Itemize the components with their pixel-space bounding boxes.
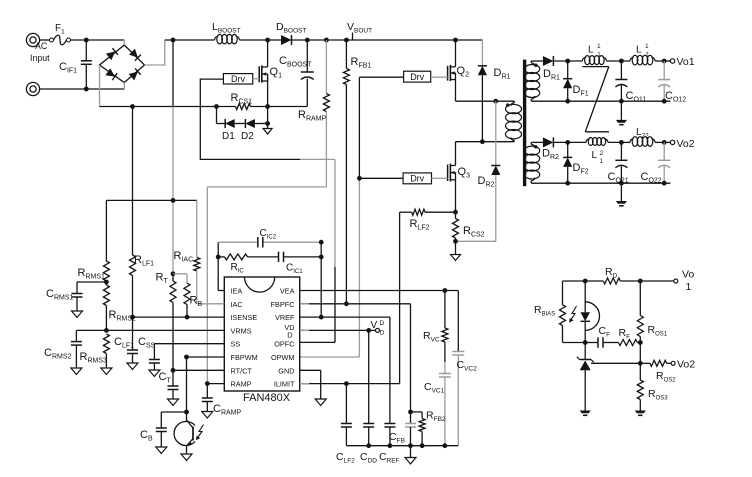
label C_SS [138,336,156,350]
driver Drv3 box [403,173,431,184]
IC pin FBPWM [231,353,258,362]
label D_R2 secondary [542,148,559,162]
label D_F2 [573,162,589,176]
label R_RAMP [298,109,327,123]
junction C_O11 top [619,59,624,64]
svg-text:D: D [380,320,385,327]
IC pin VDD [284,323,294,339]
label L22 [636,127,649,140]
label Vo2 [677,138,695,150]
label D1 [222,131,235,142]
label C_RAMP [213,403,242,417]
wire IAC row [197,303,225,305]
resistor R_LF2 [400,209,456,383]
ground output2 [616,183,627,206]
wire FBPWM row [187,356,225,358]
svg-text:1: 1 [600,158,604,165]
wire VBOUT sense vertical [172,40,174,274]
junction RT/CT node [171,368,176,373]
ground GND pin [315,399,326,406]
svg-text:1: 1 [598,52,601,58]
junction ILIMIT C_LF2 [344,381,349,386]
capacitor C_B [156,412,187,454]
IC pin GND [278,366,294,375]
AC input terminal bottom [26,82,39,95]
label R_RMS1 [78,267,106,281]
svg-text:ISENSE: ISENSE [231,313,258,322]
label C_RMS2 [44,347,72,361]
fuse F1 [50,35,71,45]
junction LED bottom [583,340,588,345]
junction D_R1 bottom [480,139,485,144]
label C_B [140,429,153,443]
transformer core [523,60,526,187]
wire optocoupler emitter [181,446,192,461]
wire compensation to VREF [320,242,322,317]
capacitor C_O12 [658,61,670,101]
label D_R1 [494,67,511,81]
IC pin RAMP [231,380,252,389]
svg-text:OPFC: OPFC [274,340,294,349]
label Vo1 [677,56,695,68]
label Vo2 feedback [677,359,695,371]
AC input terminal top [26,33,39,46]
resistor R_IAC [194,200,200,303]
junction rail [366,443,447,448]
inductor L21 [586,138,608,146]
capacitor C_O22 [658,142,670,183]
resistor R_FB1 [343,40,349,304]
resistor R_D [603,278,620,284]
bridge diode top-right [129,49,141,61]
capacitor C_SS [149,344,160,377]
resistor R_VC [442,291,448,363]
svg-text:Vo2: Vo2 [677,138,695,150]
diode D_F2 [563,142,572,183]
label R_OS1 [648,324,668,338]
svg-text:IAC: IAC [231,300,243,309]
ground under R_CS2 [451,241,461,260]
junction LED top [583,279,588,284]
junction FBPWM node [184,355,189,360]
wire output1 bottom rail [531,100,670,102]
svg-text:L: L [636,45,642,56]
inductor L22 [630,137,655,147]
capacitor C_T [168,370,179,405]
svg-text:2: 2 [600,150,604,157]
svg-text:Drv: Drv [410,174,424,184]
junction R_IC row left [216,255,221,260]
label R_T [156,272,169,286]
svg-text:AC: AC [35,41,48,51]
label R_OS2 [656,370,676,384]
label L12 [636,43,649,58]
transistor Q3 [448,142,456,182]
capacitor C_LF1 [127,317,138,369]
junction FBPFC R_FB1 [344,301,349,306]
label F1 [55,23,65,36]
coupled inductor link [582,67,609,132]
terminal VDD [376,328,380,332]
label L11 [588,43,601,58]
svg-text:VRMS: VRMS [231,326,252,335]
label R_IC [231,262,245,275]
wire bridge AC top stub [123,40,125,45]
label R_FB2 [426,410,446,424]
wire bridge DC plus lead [145,40,165,65]
diode D_R1 secondary [543,56,554,66]
label V_BOUT [347,21,372,35]
IC pin IEA [231,287,243,296]
label C_IF1 [59,61,77,75]
wire gray pin stubs [216,304,310,384]
label Q3 [458,166,471,180]
wire output2 top rail [531,141,670,143]
capacitor C_VC1 [439,362,451,446]
label R_RMS3 [80,351,108,365]
ground R_OS3 [635,411,646,416]
inductor L_BOOST [215,34,240,43]
svg-text:V: V [371,320,378,331]
ground under D2 [263,124,272,135]
junction R_OS1 top [638,279,643,284]
label C_O21 [608,171,629,185]
secondary 1 phase dot [534,63,537,66]
diode D1 [225,119,235,128]
label R_B [190,295,203,309]
label VDD [371,320,385,337]
label C_T [159,371,172,385]
capacitor C_FB [405,412,416,446]
wire GND row [300,370,321,399]
wire Q3 drain rail [456,141,515,143]
capacitor C_RMS2 [71,330,107,374]
transformer primary phase dot [506,103,509,106]
resistor R_BIAS [560,281,586,343]
svg-text:FAN480X: FAN480X [243,392,291,404]
wire FBPFC row [300,304,411,412]
diode D_R1 [478,40,487,142]
svg-text:FBPFC: FBPFC [271,300,295,309]
junction R_VC top [443,288,448,293]
diode D_R2 secondary [543,137,554,147]
shunt regulator TL431 [577,343,594,411]
wire bridge DC minus lead [99,65,101,107]
label C_BOOST [279,55,312,69]
svg-text:VEA: VEA [280,287,295,296]
label R_RMS2 [109,309,137,323]
junction ISENSE node [130,315,135,320]
driver Drv2 box [404,71,431,82]
label R_LF1 [134,254,154,268]
resistor R_OS3 [637,363,643,410]
wire Q3 source [455,180,457,219]
optocoupler phototransistor Q4 [174,420,203,446]
wire sense rail horizontal [106,199,196,201]
label Vo feedback [682,269,694,294]
svg-text:Input: Input [30,53,50,63]
svg-text:D: D [380,330,385,337]
label C_VC1 [424,381,445,395]
wire RT/CT row [173,369,224,371]
inductor L12 [630,55,655,65]
IC pin FBPFC [271,300,295,309]
wire optocoupler collector [186,357,188,422]
terminal Vo2 [670,140,674,144]
resistor R_CS2 [453,219,459,242]
label R_D [605,266,618,280]
wire Drv3 gate stub [432,177,448,179]
diode D_F1 [563,61,572,101]
diode D_R2 [456,101,501,241]
svg-text:OPWM: OPWM [271,353,295,362]
label C_O22 [641,171,662,185]
junction C_IF1 bottom [84,87,89,92]
wire bridge AC bottom stub [123,83,125,90]
svg-text:VREF: VREF [275,313,295,322]
capacitor C_LF2 [341,384,352,446]
terminal Vo2 feedback [671,361,675,365]
IC pin VRMS [231,326,252,335]
wire PFC return bus [100,106,308,108]
junction D_R2 top [493,99,498,104]
label R_FB1 [351,56,372,70]
transformer secondary 1 winding [525,61,540,101]
secondary 2 phase dot [534,145,537,148]
terminal Vo1 feedback [674,279,678,283]
bridge diode bottom-left [105,68,117,80]
svg-text:SS: SS [231,340,241,349]
resistor R_RAMP [323,40,329,187]
junction C_FB node [408,410,413,415]
label D_R1 secondary [543,68,560,82]
label R_IAC [174,250,194,264]
driver Drv1 box [223,74,252,85]
optocoupler LED D4 [569,281,599,343]
wire ILIMIT row [300,383,400,385]
svg-text:1: 1 [686,281,692,293]
label Q2 [457,65,470,79]
label C_O11 [626,90,647,104]
label C_O12 [665,90,686,104]
label C_LF1 [114,336,134,350]
transistor Q1 [259,40,267,83]
transistor Q2 [448,40,456,81]
junction Drv3 tap [357,176,362,181]
junction RAMP node [205,381,210,386]
resistor R_F [618,340,640,346]
label L_BOOST [212,21,241,35]
junction R_OS2 node [638,361,643,366]
IC pin ISENSE [231,313,258,322]
svg-text:Drv: Drv [231,74,245,84]
label AC Input [30,41,50,63]
svg-text:2: 2 [646,52,649,58]
junction C_O22 top [662,140,667,145]
junction R_T R_B top [171,271,176,276]
wire V_BOUT tick [352,33,354,41]
svg-text:Vo: Vo [682,269,694,281]
wire analog ground rail [346,445,458,447]
wire VRMS row [106,329,224,331]
IC pin SS [231,340,241,349]
svg-text:D: D [287,331,292,340]
bridge rectifier diamond [100,45,145,83]
wire feedback top rail [563,280,674,282]
capacitor C_O11 [615,61,627,101]
svg-text:RT/CT: RT/CT [231,366,253,375]
IC U1 FAN480X box [224,277,299,391]
bridge diode top-left [106,48,118,60]
wire VDD row [300,329,376,331]
junction D_F1 top [565,59,570,64]
svg-text:IEA: IEA [231,287,243,296]
junction R_B bottom [185,315,190,320]
wire VREF row [300,317,390,423]
resistor R_OS2 [650,360,667,366]
junction D_F2 top [565,140,570,145]
wire output2 bottom rail [531,182,670,184]
capacitor C_IC1 [279,252,322,263]
junction C_B node [184,410,189,415]
label D_F1 [573,84,589,98]
resistor R_LF1 [130,107,136,318]
capacitor C_IC2 [258,237,263,248]
junction output1 bottom [565,99,666,104]
junction D2 cathode [265,121,270,126]
label R_CS2 [463,225,485,239]
node return bus junctions [130,104,270,109]
capacitor C_RAMP [202,384,213,418]
svg-text:1: 1 [645,43,649,50]
wire Q1 source [267,78,269,106]
svg-text:Drv: Drv [410,72,424,82]
resistor R_CS1 [236,104,251,110]
wire OPFC to Drv1 loop [200,79,335,342]
IC pin RT/CT [231,366,253,375]
wire OPWM to Drv2 Drv3 [300,77,404,357]
label C_IC1 [286,263,303,276]
svg-text:ILIMIT: ILIMIT [274,380,295,389]
label FAN480X [243,392,291,404]
junction C_O12 top [662,59,667,64]
label R_F [619,327,631,341]
wire Drv1 gate stub [253,78,260,80]
wire D1 D2 branch [217,107,268,124]
label R_VC [423,330,440,344]
node VBOUT junctions [171,38,458,43]
label C_FB [389,431,405,445]
wire AC top [40,39,125,41]
label R_OS3 [648,388,668,402]
wire Q2 source node [456,80,515,102]
ground rail [405,446,416,464]
IC pin OPWM [271,353,295,362]
label C_REF [379,451,400,465]
wire R_B jog [173,274,187,283]
transformer T1 primary winding [506,101,522,142]
wire C_IC2 row [218,241,321,243]
resistor R_IC [218,254,278,260]
label L21 [592,150,604,165]
capacitor C_VC2 [452,291,464,446]
label C_DD [360,451,377,465]
wire RAMP net to pin [207,187,326,384]
IC pin VREF [275,313,295,322]
resistor R_RMS3 [101,334,112,375]
diode D2 [245,119,255,128]
svg-text:RAMP: RAMP [231,380,252,389]
svg-text:L: L [588,45,594,56]
label D_BOOST [276,21,306,35]
junction sense rail [171,198,176,203]
junction Q3 source node [453,210,458,215]
svg-text:D1: D1 [222,131,235,142]
label D2 [241,131,254,142]
inductor L11 [582,56,606,65]
resistor R_OS1 [637,281,643,363]
resistor R_B [184,283,190,317]
bridge diode bottom-right [129,68,141,80]
label C_VC2 [457,359,478,373]
capacitor C_F [585,337,618,348]
svg-text:Vo1: Vo1 [677,56,695,68]
wire SS row [154,343,224,345]
label Q1 [270,66,283,80]
resistor R_FB2 [411,412,426,446]
capacitor C_RMS1 [72,282,107,318]
wire RAMP row [207,383,224,385]
junction R_RMS1 bottom [104,280,109,285]
capacitor C_REF [384,424,395,446]
svg-text:GND: GND [278,366,294,375]
wire VEA row [300,290,459,292]
svg-text:D2: D2 [241,131,254,142]
label R_LF2 [410,218,430,232]
svg-text:Vo2: Vo2 [677,359,695,371]
resistor R_RMS1 [103,200,109,285]
junction R_CS2 bottom [453,239,458,244]
resistor R_T [170,274,176,371]
junction VDD node [366,328,371,333]
junction output2 bottom [565,181,666,186]
ground output1 [616,101,627,125]
label R_BIAS [534,304,555,318]
label C_RMS1 [46,288,74,302]
wire HV bus [165,39,483,41]
junction C_F R_F node [638,340,643,345]
capacitor C_DD [363,330,374,445]
wire IEA loop [218,242,224,290]
wire Vo2 feedback row [591,362,671,364]
wire Drv2 gate stub [431,76,448,78]
label R_CS1 [231,92,253,106]
junction compensation right [319,240,324,259]
label D_R2 [478,175,495,189]
capacitor C_O21 [615,142,627,183]
svg-text:1: 1 [597,43,601,50]
wire ISENSE row [133,316,225,318]
capacitor C_BOOST [301,40,314,107]
junction C_IF1 top [84,38,89,43]
junction VRMS node [104,328,109,333]
junction C_O21 top [619,140,624,145]
IC pin IAC [231,300,243,309]
diode D_BOOST [281,35,292,45]
label C_F [599,325,611,339]
wire AC bottom [40,88,125,90]
svg-text:L: L [592,150,598,161]
